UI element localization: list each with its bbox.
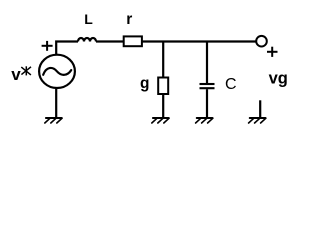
wire inductor to resistor r: [96, 40, 124, 42]
svg-text:r: r: [126, 11, 132, 28]
output terminal circle: [256, 36, 267, 47]
capacitor C plates: [200, 83, 215, 85]
svg-text:L: L: [84, 11, 93, 27]
ground below vg stub: [249, 118, 266, 123]
ground below source: [45, 118, 62, 123]
resistor g (vertical box): [158, 78, 168, 95]
vg reference stub: [259, 100, 261, 118]
ground below g: [152, 118, 169, 123]
node: g junction wire down: [162, 42, 164, 78]
inductor L: [78, 38, 96, 42]
svg-text:g: g: [140, 75, 149, 92]
node: C junction wire down: [206, 42, 208, 84]
source vertical stub + top-left corner wire: [56, 42, 78, 55]
wire resistor r to output terminal: [142, 40, 256, 42]
svg-text:C: C: [225, 76, 237, 93]
wire g box to ground: [162, 95, 164, 119]
ground below C: [196, 118, 213, 123]
svg-text:vg: vg: [269, 69, 288, 87]
wire C to ground: [206, 89, 208, 118]
resistor r (box): [124, 36, 142, 46]
sine wave inside source: [43, 68, 71, 75]
svg-text:v: v: [11, 65, 21, 84]
AC source circle: [39, 55, 75, 88]
wire source bottom to ground: [55, 89, 57, 118]
plus sign at source (drawn): [42, 41, 53, 51]
plus sign at output (drawn): [267, 47, 278, 57]
